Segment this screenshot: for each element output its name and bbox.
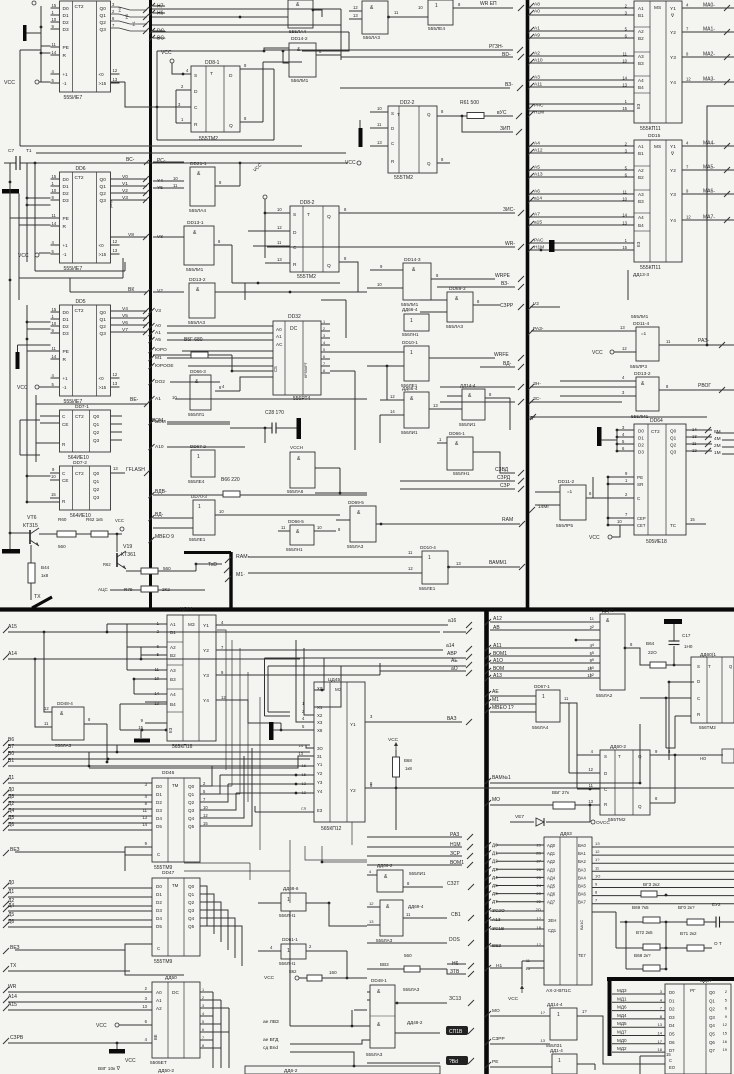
label A12r (493, 616, 502, 622)
wire q47 out 4 (200, 918, 235, 958)
svg-text:PE: PE (63, 45, 69, 51)
wire pin (51, 28, 60, 30)
label V8 (128, 232, 134, 238)
wire e (145, 722, 167, 724)
label 555ID7 (150, 1060, 167, 1066)
wire (530, 386, 636, 388)
wire Д4 (8, 910, 152, 912)
terminal b (295, 976, 299, 980)
svg-text:DD69-5: DD69-5 (348, 500, 364, 505)
wire wo (490, 804, 553, 806)
wire txd (158, 570, 196, 572)
svg-text:Q4: Q4 (709, 1023, 715, 1028)
svg-text:ВА6: ВА6 (578, 892, 586, 897)
svg-text:CT2: CT2 (75, 175, 84, 181)
resistor R69 (643, 917, 660, 923)
svg-text:ДД66-4: ДД66-4 (402, 307, 418, 312)
wire mesh14 (249, 863, 251, 880)
svg-text:М1: М1 (155, 355, 162, 361)
wire r1 (48, 442, 60, 444)
wire in2 (529, 224, 634, 226)
node Д5 (3, 915, 9, 921)
label 556LE1 (401, 383, 418, 388)
wire out (473, 304, 500, 306)
svg-text:DD5: DD5 (76, 299, 86, 305)
wire (158, 589, 205, 591)
node В1 (3, 761, 9, 767)
svg-text:МА3-: МА3- (703, 77, 715, 83)
label H6 (452, 961, 459, 967)
svg-text:Q1: Q1 (93, 479, 100, 484)
wire right (322, 977, 367, 979)
wire down to dd50 (125, 950, 184, 975)
label DD60-1 (700, 652, 716, 658)
svg-text:DD11-2: DD11-2 (558, 479, 575, 485)
svg-text:ГFLASН: ГFLASН (126, 467, 145, 473)
wire d3 (617, 450, 634, 452)
svg-text:DD32: DD32 (288, 314, 301, 320)
IC DD44 multiplexer (167, 615, 216, 741)
node bs (517, 85, 523, 91)
wire Д1 (8, 896, 152, 898)
svg-text:ВБГ 27к: ВБГ 27к (552, 790, 570, 795)
label 1k8 (41, 573, 49, 578)
svg-text:555ЛР5: 555ЛР5 (556, 523, 573, 529)
label R64 (646, 641, 655, 646)
svg-text:1: 1 (558, 1058, 561, 1064)
node snc (518, 210, 524, 216)
wire rnet6 (660, 947, 687, 949)
wire out6 (321, 365, 330, 367)
wire cspp (8, 1042, 152, 1044)
svg-text:ВЕ-: ВЕ- (130, 397, 139, 403)
label DD14-4 (460, 383, 476, 388)
label RAM (502, 517, 513, 523)
wire (386, 366, 388, 400)
junction (295, 792, 298, 795)
wire in extra2 (490, 670, 600, 672)
wire VCC to pin (39, 81, 51, 83)
wire d in (669, 681, 694, 683)
svg-text:PE: PE (63, 349, 69, 355)
wire (153, 180, 184, 182)
svg-text:1З: 1З (540, 1038, 545, 1043)
node Н1М (528, 246, 534, 252)
svg-text:В8Г 10к ∇: В8Г 10к ∇ (98, 1066, 121, 1072)
wire ad0 (496, 844, 544, 846)
gate DD67-2 (191, 450, 215, 477)
wire (231, 245, 233, 283)
svg-text:Н1М: Н1М (534, 110, 544, 116)
svg-text:ВА1: ВА1 (578, 851, 586, 856)
svg-text:D0: D0 (156, 784, 162, 789)
svg-text:DD7-1: DD7-1 (75, 404, 89, 410)
svg-text:ТМ: ТМ (172, 883, 179, 888)
svg-text:DD8-1: DD8-1 (205, 60, 220, 66)
svg-text:ДД13-3: ДД13-3 (633, 272, 649, 278)
wire long vcc line (20, 162, 348, 164)
svg-text:Q3: Q3 (188, 808, 195, 813)
svg-text:VТ6: VТ6 (27, 515, 37, 521)
svg-text:Y1: Y1 (670, 6, 676, 12)
svg-text:505ИЕ18: 505ИЕ18 (646, 539, 667, 545)
svg-text:DD64: DD64 (650, 418, 663, 424)
wire e1 (529, 242, 634, 244)
svg-text:Д5: Д5 (8, 912, 14, 918)
junction (665, 697, 668, 700)
svg-text:B1: B1 (638, 151, 644, 156)
wire (395, 750, 397, 757)
terminal vcc (357, 161, 361, 165)
svg-text:D3: D3 (63, 198, 69, 204)
svg-text:Q2: Q2 (100, 20, 107, 26)
svg-text:14: 14 (52, 50, 57, 55)
wire (575, 804, 590, 806)
svg-text:VCC: VCC (592, 350, 603, 356)
IC DD16 multiplexer 555KP11 (634, 140, 682, 262)
gate DD21-1 (190, 167, 215, 206)
wire RES2 (15, 944, 152, 950)
wire ВОМ1 (367, 864, 462, 866)
svg-text:В1: В1 (170, 630, 176, 635)
wire (152, 16, 288, 18)
svg-text:ВА5: ВА5 (578, 884, 586, 889)
svg-text:D0: D0 (63, 6, 69, 12)
label 555LA3 d (446, 324, 463, 330)
wire long bs (340, 87, 510, 89)
svg-text:DD6: DD6 (76, 166, 86, 172)
node TX (3, 966, 9, 972)
wire (336, 519, 350, 521)
label R68v (404, 758, 412, 763)
VCC label (4, 80, 15, 86)
svg-text:11: 11 (277, 240, 282, 245)
svg-text:В6: В6 (8, 737, 14, 743)
wire q47 out 0 (200, 886, 207, 926)
junction (133, 678, 136, 681)
svg-text:Q2: Q2 (100, 191, 107, 197)
svg-text:Д4: Д4 (8, 808, 14, 814)
wire (440, 401, 515, 403)
wire (34, 163, 36, 271)
wire in (447, 395, 462, 397)
wire pin (370, 111, 388, 113)
wire rnet rail2 (625, 922, 627, 969)
svg-text:D1: D1 (63, 13, 69, 19)
svg-text:13: 13 (113, 77, 118, 82)
label vcc10 (508, 996, 519, 1002)
svg-text:ДД69-4: ДД69-4 (408, 904, 424, 909)
gate DD14-3 (403, 263, 431, 300)
label А1О (493, 658, 503, 664)
label DD66-3 (190, 369, 206, 374)
svg-text:ЕЗ: ЕЗ (317, 808, 323, 813)
wire (153, 354, 191, 356)
label WR EN (480, 1, 497, 7)
wire (614, 351, 636, 353)
wire (27, 475, 51, 477)
wire (20, 49, 41, 51)
svg-text:ЕЗ: ЕЗ (636, 241, 641, 247)
wire c28 (230, 427, 272, 429)
svg-text:ВD-: ВD- (502, 52, 511, 58)
svg-text:МД2: МД2 (617, 1046, 627, 1051)
svg-text:D0: D0 (156, 884, 162, 889)
svg-text:В2: В2 (170, 653, 176, 658)
wire (627, 270, 629, 300)
svg-text:DD13-2: DD13-2 (189, 277, 206, 283)
svg-text:DD14-3: DD14-3 (404, 257, 421, 263)
svg-text:556ТМ2: 556ТМ2 (699, 725, 716, 730)
wire (522, 960, 544, 962)
wire rd2 (153, 517, 193, 519)
wire (354, 1009, 367, 1011)
label CSRD (495, 467, 509, 473)
svg-text:13: 13 (353, 13, 358, 18)
wire (19, 224, 51, 226)
wire (340, 9, 342, 60)
svg-text:10: 10 (51, 474, 56, 479)
label DD66-5 (288, 519, 304, 524)
label 4M (714, 436, 721, 442)
label CS2T (447, 881, 459, 887)
svg-text:Y1: Y1 (317, 762, 323, 767)
wire down (106, 724, 108, 762)
wire bot1 (232, 282, 340, 284)
wire (232, 370, 273, 372)
node (518, 399, 524, 405)
wire below DD6 b (19, 277, 123, 279)
svg-text:А5: А5 (534, 165, 540, 171)
node А7 (528, 213, 534, 219)
svg-text:Д2: Д2 (492, 859, 498, 864)
wire out МА2- (682, 56, 734, 58)
label RES (10, 847, 20, 853)
wire diode l (510, 821, 534, 823)
svg-text:555ЛА3: 555ЛА3 (188, 320, 205, 326)
node2 (516, 129, 522, 135)
svg-text:11: 11 (173, 183, 178, 188)
wire (379, 415, 381, 443)
svg-text:555ЛА4: 555ЛА4 (289, 29, 306, 35)
wire (17, 345, 19, 352)
svg-text:Q1: Q1 (100, 317, 107, 323)
label М1 (155, 355, 162, 361)
svg-text:ТХ: ТХ (34, 594, 41, 600)
svg-text:16: 16 (723, 1039, 728, 1044)
wire out0 (321, 323, 330, 325)
wire (124, 852, 126, 871)
wire (76, 533, 91, 535)
node В6 (3, 740, 9, 746)
wire y in 2 (228, 783, 314, 785)
svg-text:В7: В7 (8, 744, 14, 750)
label a14b (446, 643, 455, 649)
svg-text:А0: А0 (534, 9, 540, 15)
svg-text:ЮРООЕ: ЮРООЕ (155, 363, 174, 369)
label DD44 (180, 606, 192, 612)
label 560b (163, 566, 171, 571)
svg-text:А1: А1 (156, 998, 162, 1003)
label А0 (155, 323, 161, 329)
wire in2 (529, 200, 634, 202)
svg-text:ВЕЗ: ВЕЗ (10, 945, 20, 951)
wire out dd70 (215, 514, 340, 516)
svg-text:T: T (307, 212, 310, 218)
svg-text:+1: +1 (63, 72, 69, 77)
gate DD13-2 (189, 283, 215, 318)
svg-text:S: S (293, 212, 296, 218)
svg-text:12: 12 (723, 1022, 728, 1027)
terminal (35, 253, 39, 257)
svg-text:А0: А0 (155, 323, 161, 329)
svg-text:В3: В3 (170, 677, 176, 682)
wire out (395, 1002, 447, 1004)
label Д4 (492, 875, 498, 880)
label А1 (155, 330, 161, 336)
label МД2 (617, 1046, 627, 1051)
svg-text:12: 12 (390, 394, 395, 399)
svg-text:В66 220: В66 220 (221, 477, 240, 483)
svg-text:ВА1С: ВА1С (579, 920, 584, 930)
label 555LI1 c (459, 422, 476, 427)
svg-text:13: 13 (142, 1004, 147, 1009)
svg-text:CT2: CT2 (75, 4, 84, 10)
svg-text:12: 12 (221, 695, 226, 700)
node prog (719, 387, 725, 393)
wire (39, 252, 51, 254)
svg-text:DD66-3: DD66-3 (190, 369, 206, 374)
label RDR (155, 489, 167, 495)
svg-text:ВА7: ВА7 (578, 900, 586, 905)
junction (165, 729, 168, 732)
wire (447, 969, 466, 974)
svg-text:WR: WR (8, 984, 17, 990)
svg-text:H1: H1 (132, 21, 136, 26)
wire c (593, 497, 634, 499)
svg-text:В69 7к5: В69 7к5 (632, 905, 649, 910)
wire WR (8, 991, 152, 993)
svg-text:1?: 1? (595, 857, 600, 862)
svg-text:A1: A1 (276, 334, 282, 339)
wire q47 out 1 (200, 894, 214, 934)
wire rom2 (167, 423, 230, 425)
svg-text:CS: CS (273, 366, 278, 372)
svg-text:C: C (157, 852, 160, 857)
node DC- (149, 28, 155, 34)
svg-text:Д7: Д7 (492, 899, 498, 904)
label 565KP16 (172, 744, 193, 750)
svg-text:D1: D1 (669, 998, 675, 1003)
svg-text:1О: 1О (595, 873, 600, 878)
svg-text:А4: А4 (170, 692, 176, 697)
wire stub (153, 12, 165, 14)
wire tx (8, 970, 130, 972)
label МД7 (617, 1030, 627, 1035)
wire (50, 479, 60, 481)
wire out (586, 497, 593, 499)
label DD50 (165, 975, 177, 981)
svg-text:555ЛЕ4: 555ЛЕ4 (428, 26, 445, 32)
wire q1 (686, 436, 712, 438)
label R44 (41, 565, 50, 570)
label 555LN1 b (453, 471, 470, 476)
svg-text:14: 14 (299, 743, 304, 748)
wire (110, 589, 141, 591)
svg-text:Y4: Y4 (317, 789, 323, 794)
label ZIP (500, 126, 511, 132)
junction (43, 631, 46, 634)
wire pin (111, 377, 120, 379)
wire Н1М (367, 846, 462, 848)
label WOb (492, 797, 500, 803)
svg-text:10: 10 (377, 282, 382, 287)
wire (299, 977, 307, 979)
label АЕ (492, 689, 499, 695)
wire (440, 386, 515, 388)
svg-text:10: 10 (52, 321, 57, 326)
node Д5 (3, 818, 9, 824)
svg-text:CT2: CT2 (75, 471, 84, 476)
svg-text:ЗС13: ЗС13 (449, 996, 461, 1002)
wire ba4 (592, 878, 734, 880)
svg-text:555ТМ2: 555ТМ2 (199, 136, 218, 142)
label R63 (380, 962, 389, 967)
wire gnd to x8 (273, 729, 281, 731)
wire nest v2 (267, 666, 269, 712)
terminal (35, 385, 39, 389)
svg-text:555ТМ9: 555ТМ9 (154, 959, 173, 965)
node Д2 (3, 804, 9, 810)
svg-text:CE: CE (62, 478, 68, 483)
wire in1 (107, 623, 167, 625)
node В0 (3, 754, 9, 760)
wire in (529, 79, 634, 81)
wire pin (51, 199, 60, 201)
svg-text:13: 13 (142, 815, 147, 820)
svg-text:Q2: Q2 (100, 324, 107, 330)
svg-text:1: 1 (435, 3, 438, 9)
gate DD67-1 (536, 690, 560, 722)
label dd13 (634, 371, 651, 377)
svg-text:DD10-1: DD10-1 (402, 340, 418, 345)
wire b (560, 395, 636, 397)
label lii (631, 314, 649, 320)
svg-text:556ЛА3: 556ЛА3 (363, 35, 380, 41)
node А2 (528, 52, 534, 58)
wire (153, 161, 184, 163)
svg-text:Н1М: Н1М (534, 245, 544, 251)
node wr (518, 244, 524, 250)
svg-text:R60: R60 (58, 517, 67, 522)
wire right2 (490, 629, 600, 631)
wire mesh10 (322, 846, 367, 862)
wire pin (51, 350, 60, 352)
svg-text:СЗРВ: СЗРВ (10, 1035, 24, 1041)
wire a1 10 (175, 398, 367, 400)
svg-text:Q: Q (427, 112, 431, 117)
capacitor C7 plates (16, 156, 20, 170)
svg-text:ДД14-4: ДД14-4 (547, 1002, 563, 1007)
svg-text:555ЛА3: 555ЛА3 (347, 544, 364, 549)
svg-text:10: 10 (203, 805, 208, 810)
svg-text:D0: D0 (669, 990, 675, 995)
label DD69-4 (408, 904, 424, 909)
wire (30, 545, 32, 563)
resistor R68v (393, 757, 400, 777)
label Y4 (157, 178, 163, 184)
wire dd50 q4 (200, 1023, 221, 1025)
